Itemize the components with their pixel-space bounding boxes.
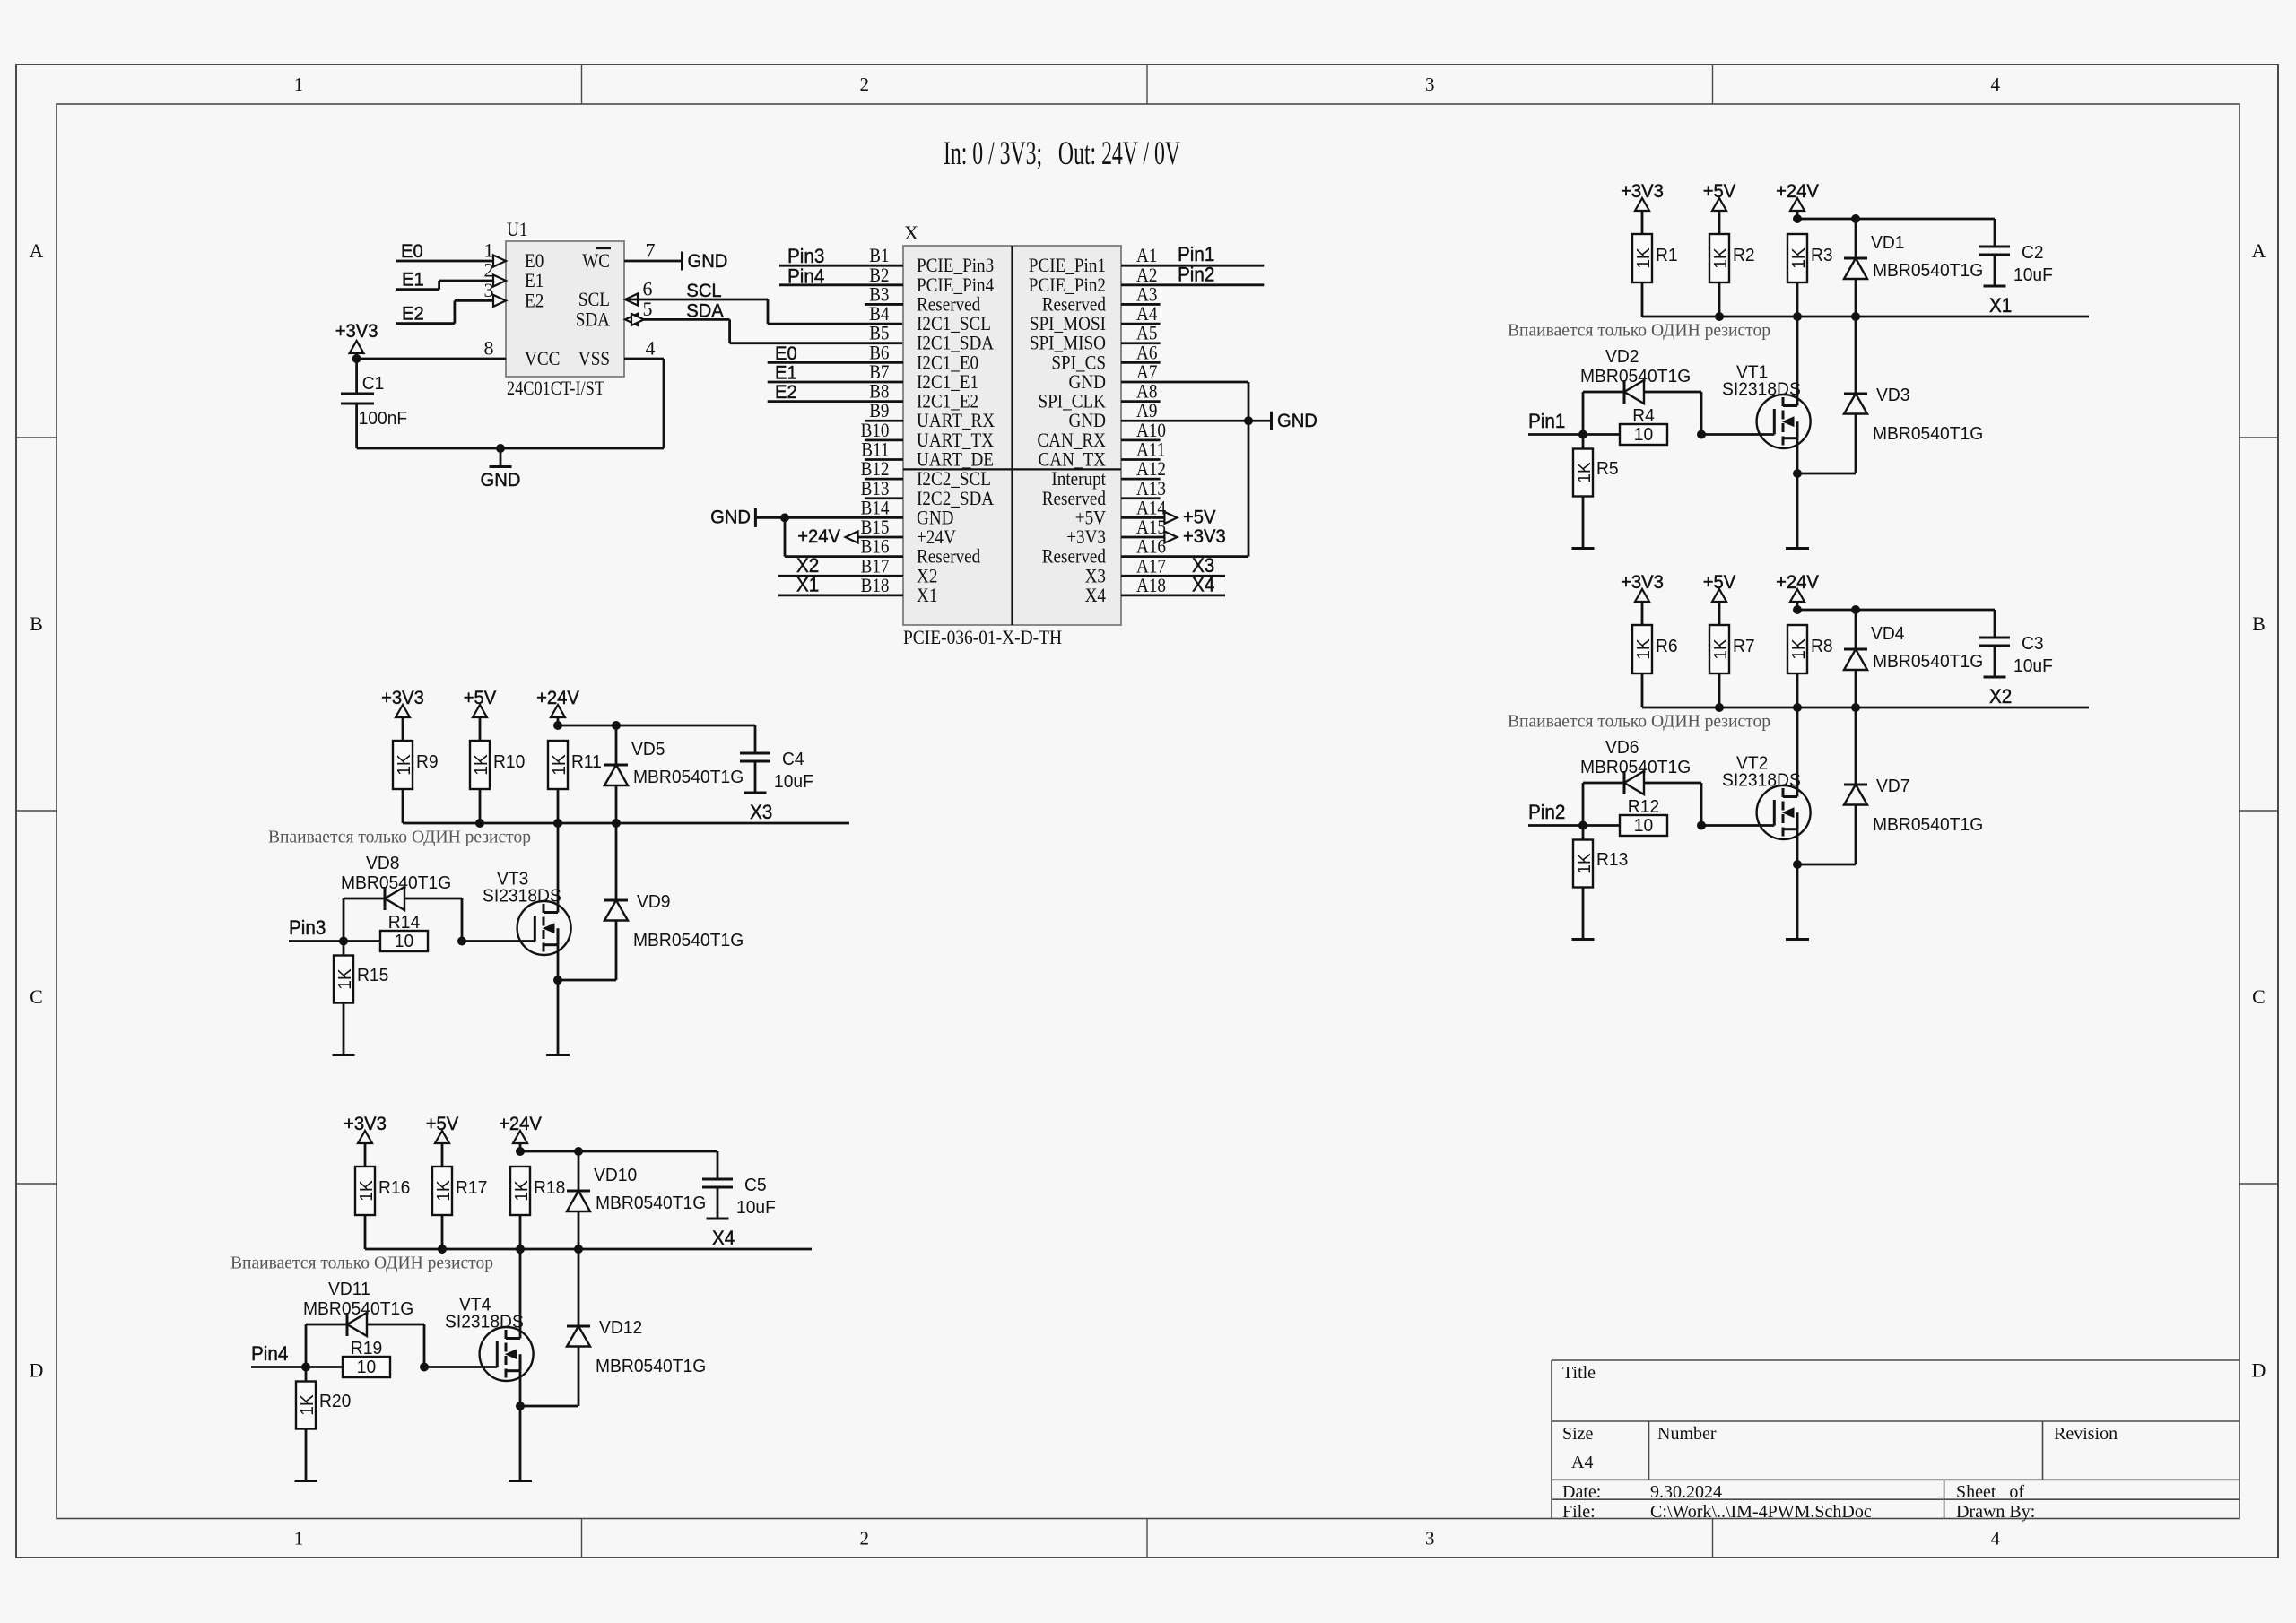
svg-text:Pin2: Pin2 [1528,801,1565,823]
resistor R14 10 [380,931,428,951]
svg-text:R4: R4 [1632,405,1655,426]
svg-text:Date:: Date: [1562,1482,1601,1502]
svg-text:VSS: VSS [578,347,610,369]
svg-text:1K: 1K [1710,247,1731,269]
svg-text:R11: R11 [571,751,602,772]
capacitor C4 10uF [754,725,757,753]
diode VD10 MBR0540T1G [578,1151,580,1191]
svg-text:In: 0 / 3V3; Out: 24V / 0V: In: 0 / 3V3; Out: 24V / 0V [944,135,1180,171]
svg-text:MBR0540T1G: MBR0540T1G [596,1193,706,1213]
wire drain (VT1) [1796,317,1799,406]
svg-text:SDA: SDA [686,299,724,321]
ground bar (R20) [295,1480,317,1482]
svg-text:2: 2 [860,74,870,95]
wire X2 to X.B17 [778,575,903,577]
capacitor C3 10uF [1994,610,1996,638]
transistor VT1 SI2318DS [1757,395,1811,448]
svg-text:E2: E2 [525,289,544,311]
diode VD8 MBR0540T1G [343,898,345,942]
wire GND to X.B14 [756,516,903,519]
resistor R12 10 [1620,815,1667,836]
svg-text:File:: File: [1562,1502,1596,1522]
svg-text:VD9: VD9 [637,891,671,912]
wire source (VT2) [1796,829,1799,940]
wire VSS down [624,358,664,360]
svg-text:7: 7 [646,239,656,262]
svg-text:10uF: 10uF [774,771,813,792]
svg-text:10: 10 [1634,815,1653,836]
wire +24V top rail (X1) [1797,218,1995,221]
ground bar (VT4 source) [509,1480,532,1482]
svg-text:X1: X1 [796,574,819,596]
svg-text:1K: 1K [1788,247,1809,269]
wire E2 to U1 pin3 [396,322,455,325]
svg-text:MBR0540T1G: MBR0540T1G [1873,260,1983,281]
junction gate node (VT2) [1697,821,1706,830]
svg-text:MBR0540T1G: MBR0540T1G [1580,757,1691,777]
capacitor C5 10uF [717,1151,719,1179]
svg-text:SI2318DS: SI2318DS [1722,770,1801,791]
wire gate (VT2) [1701,824,1774,827]
svg-text:Drawn By:: Drawn By: [1956,1502,2035,1522]
transistor VT3 SI2318DS [517,901,571,955]
resistor R3 1K [1787,234,1807,282]
svg-text:R2: R2 [1733,245,1755,265]
wire source (VT3) [557,945,560,1055]
junction source node (VT1) [1793,469,1802,478]
diode VD9 MBR0540T1G [558,979,616,982]
wire GND rail under U1 [357,447,664,450]
wire Pin3 input [289,940,380,942]
svg-text:PCIE-036-01-X-D-TH: PCIE-036-01-X-D-TH [903,626,1062,648]
diode VD5 MBR0540T1G [615,725,618,765]
diode VD1 MBR0540T1G [1855,219,1857,258]
svg-text:MBR0540T1G: MBR0540T1G [1873,651,1983,672]
svg-text:R19: R19 [351,1338,382,1358]
junction A9 GND [1244,416,1253,425]
wire drain (VT3) [557,823,560,913]
svg-text:VD2: VD2 [1605,346,1639,367]
svg-text:VD5: VD5 [631,739,665,759]
ground bar (C4) [744,792,767,794]
svg-text:10uF: 10uF [2013,265,2053,285]
ground bar (VT3 source) [546,1054,570,1056]
power port +5V (X.A14) [1121,516,1165,519]
svg-text:4: 4 [1991,74,2001,95]
svg-text:+3V3: +3V3 [1183,525,1226,547]
ground GND (U1 pin7) [624,260,681,263]
diode VD11 MBR0540T1G [305,1324,308,1367]
wire Pin4 to X.B2 [779,283,903,286]
wire Pin1 X.A1 [1121,265,1264,267]
svg-text:1K: 1K [1633,247,1654,269]
svg-text:2: 2 [860,1528,870,1549]
transistor VT4 SI2318DS [480,1327,534,1381]
wire gate (VT1) [1701,433,1774,436]
ground bar (R5) [1572,547,1595,550]
junction source node (VT2) [1793,860,1802,869]
resistor R17 1K [432,1167,452,1215]
svg-text:Впаивается только ОДИН резисто: Впаивается только ОДИН резистор [230,1254,493,1273]
svg-text:Впаивается только ОДИН резисто: Впаивается только ОДИН резистор [1508,321,1770,341]
resistor R1 1K [1632,234,1652,282]
junction gate node (VT4) [420,1363,429,1372]
svg-text:VD1: VD1 [1871,232,1905,253]
svg-text:C: C [2252,985,2266,1008]
svg-text:1K: 1K [433,1180,454,1202]
svg-text:MBR0540T1G: MBR0540T1G [1873,423,1983,444]
svg-text:VD11: VD11 [328,1279,370,1299]
transistor VT2 SI2318DS [1757,785,1811,839]
capacitor C2 10uF [1994,219,1996,247]
svg-text:MBR0540T1G: MBR0540T1G [633,767,744,787]
wire GND A9 [1121,420,1248,422]
svg-text:X2: X2 [1989,685,2012,707]
svg-text:VCC: VCC [525,347,560,369]
svg-text:Sheet of: Sheet of [1956,1482,2024,1502]
node VCC junction [352,354,361,363]
wire drain (VT2) [1796,707,1799,797]
svg-text:GND: GND [1277,410,1318,431]
svg-text:R12: R12 [1628,796,1659,817]
svg-text:MBR0540T1G: MBR0540T1G [341,872,451,893]
svg-text:Number: Number [1657,1424,1717,1444]
svg-text:C2: C2 [2022,242,2044,263]
junction gate node (VT3) [457,937,466,946]
svg-text:1: 1 [294,74,304,95]
svg-text:5: 5 [643,298,653,320]
svg-text:E2: E2 [402,303,424,325]
resistor R16 1K [355,1167,375,1215]
svg-text:3: 3 [1425,74,1435,95]
power port +3V3 (X.A15) [1121,536,1165,539]
svg-text:1: 1 [294,1528,304,1549]
svg-text:1K: 1K [335,968,355,990]
svg-text:R15: R15 [357,965,388,985]
svg-text:B: B [30,612,43,635]
svg-text:1K: 1K [1788,638,1809,660]
svg-text:D: D [2252,1359,2266,1382]
resistor R8 1K [1787,625,1807,673]
resistor R15 1K [343,942,345,956]
wire Pin4 input [251,1366,343,1368]
diode VD3 MBR0540T1G [1797,473,1856,475]
svg-text:R1: R1 [1656,245,1678,265]
svg-text:4: 4 [646,337,656,360]
svg-text:E1: E1 [525,269,544,291]
resistor R13 1K [1582,826,1585,840]
svg-text:GND: GND [688,250,728,272]
title block [1552,1359,2239,1361]
svg-text:X1: X1 [917,584,937,606]
wire Pin2 X.A2 [1121,283,1264,286]
wire X4 X.A18 [1121,595,1225,597]
svg-text:R17: R17 [456,1177,487,1198]
svg-text:A: A [2252,239,2266,262]
svg-text:+5V: +5V [1183,506,1216,527]
svg-text:R7: R7 [1733,636,1755,656]
svg-text:SI2318DS: SI2318DS [483,886,561,907]
svg-text:VD8: VD8 [366,853,400,873]
svg-text:R20: R20 [319,1391,351,1411]
wire gate (VT3) [462,940,535,942]
diode VD6 MBR0540T1G [1582,783,1585,826]
svg-text:10uF: 10uF [2013,655,2053,676]
svg-text:E1: E1 [402,269,424,291]
svg-text:MBR0540T1G: MBR0540T1G [596,1356,706,1376]
svg-text:VD6: VD6 [1605,737,1639,758]
svg-text:1K: 1K [471,754,491,776]
svg-text:Title: Title [1562,1363,1596,1383]
svg-text:1K: 1K [297,1394,317,1416]
svg-text:X4: X4 [1192,574,1214,596]
node +24V junction (X3) [553,721,562,730]
svg-text:4: 4 [1991,1528,2001,1549]
svg-text:SI2318DS: SI2318DS [1722,379,1801,400]
wire source (VT1) [1796,438,1799,549]
resistor R19 10 [343,1357,390,1377]
ground GND (under U1) [496,444,505,453]
resistor R5 1K [1582,435,1585,449]
capacitor C1 [355,359,358,394]
diode VD12 MBR0540T1G [520,1405,578,1408]
svg-text:SI2318DS: SI2318DS [445,1312,524,1332]
diode VD7 MBR0540T1G [1797,864,1856,866]
svg-text:Pin4: Pin4 [251,1342,288,1365]
junction Pin2 node [1578,821,1587,830]
wire Pin3 to X.B1 [779,265,903,267]
svg-text:SCL: SCL [686,280,721,301]
svg-text:Впаивается только ОДИН резисто: Впаивается только ОДИН резистор [268,828,531,847]
ground bar (R13) [1572,938,1595,941]
junction source node (VT4) [516,1402,525,1410]
svg-text:VD3: VD3 [1876,385,1910,405]
ground bar (C5) [707,1218,729,1220]
wire E1 to X.B7 [768,381,903,384]
resistor R7 1K [1709,625,1729,673]
node +24V junction (X4) [516,1147,525,1156]
svg-text:6: 6 [643,278,653,300]
ground GND (X.A9) [1248,420,1270,422]
wire E1 to U1 pin2 [396,288,439,291]
svg-text:MBR0540T1G: MBR0540T1G [303,1298,413,1319]
svg-text:X4: X4 [1085,584,1106,606]
svg-text:D: D [30,1359,44,1382]
svg-text:R6: R6 [1656,636,1678,656]
svg-text:E0: E0 [401,240,423,262]
svg-text:1K: 1K [394,754,414,776]
svg-text:8: 8 [484,337,494,360]
wire gate (VT4) [424,1366,497,1368]
svg-text:U1: U1 [507,218,527,240]
svg-text:1K: 1K [1574,462,1595,483]
svg-text:SDA: SDA [576,308,610,330]
wire GND loop A7-A16 [1121,381,1248,384]
junction Pin3 node [339,937,348,946]
junction Pin4 node [301,1363,310,1372]
wire SDA U1 to X.B5 [644,318,730,321]
svg-text:VD7: VD7 [1876,776,1910,796]
diode VD2 MBR0540T1G [1582,392,1585,435]
ground bar (C3) [1984,676,2006,679]
wire +24V top rail (X4) [520,1150,717,1153]
resistor R20 1K [305,1367,308,1382]
svg-text:1K: 1K [1710,638,1731,660]
node +24V junction (X2) [1793,605,1802,614]
resistor R10 1K [470,741,490,789]
svg-text:10: 10 [1634,424,1653,445]
svg-text:R10: R10 [493,751,525,772]
svg-text:WC: WC [582,249,610,272]
svg-text:9.30.2024: 9.30.2024 [1650,1482,1722,1502]
resistor R18 1K [510,1167,530,1215]
svg-text:+3V3: +3V3 [335,320,378,342]
svg-text:MBR0540T1G: MBR0540T1G [1873,814,1983,835]
svg-text:MBR0540T1G: MBR0540T1G [1580,366,1691,386]
svg-text:E1: E1 [775,361,797,383]
svg-text:B: B [2252,612,2266,635]
svg-text:GND: GND [481,469,521,490]
svg-text:1K: 1K [1574,853,1595,874]
svg-text:R9: R9 [416,751,439,772]
svg-text:1K: 1K [549,754,570,776]
junction source node (VT3) [553,976,562,985]
svg-text:X3: X3 [750,801,772,823]
wire source (VT4) [519,1371,522,1481]
junction Pin1 node [1578,430,1587,439]
svg-text:VD4: VD4 [1871,623,1905,644]
svg-text:X1: X1 [1989,294,2012,317]
wire GND to X.B16 [784,517,787,556]
IC U1 24C01CT-I/ST body [506,241,624,377]
svg-text:R3: R3 [1811,245,1833,265]
svg-text:10: 10 [395,931,413,951]
resistor R6 1K [1632,625,1652,673]
svg-text:3: 3 [1425,1528,1435,1549]
svg-text:VD10: VD10 [594,1165,637,1185]
svg-text:Впаивается только ОДИН резисто: Впаивается только ОДИН резистор [1508,712,1770,732]
ground bar (C2) [1984,285,2006,288]
svg-text:E0: E0 [775,343,797,364]
ground GND (X.B14) [754,508,757,527]
svg-text:R5: R5 [1596,458,1619,479]
svg-text:1K: 1K [511,1180,532,1202]
wire +24V top rail (X2) [1797,609,1995,612]
svg-text:C5: C5 [744,1175,767,1195]
connector X PCIE-036-01-X-D-TH body [903,246,1121,625]
svg-text:Pin2: Pin2 [1178,263,1214,285]
svg-text:R8: R8 [1811,636,1833,656]
wire drain (VT4) [519,1249,522,1339]
resistor R11 1K [548,741,568,789]
resistor R2 1K [1709,234,1729,282]
svg-text:C1: C1 [362,373,385,394]
svg-text:R18: R18 [534,1177,565,1198]
svg-text:A: A [30,239,44,262]
ground bar (VT2 source) [1786,938,1809,941]
svg-text:Pin3: Pin3 [289,916,326,939]
diode VD4 MBR0540T1G [1855,610,1857,649]
svg-text:GND: GND [710,507,751,528]
svg-text:1K: 1K [356,1180,377,1202]
resistor R9 1K [393,741,413,789]
svg-text:R13: R13 [1596,849,1628,870]
svg-text:3: 3 [484,279,494,301]
svg-text:10uF: 10uF [736,1197,776,1218]
svg-text:E2: E2 [775,381,797,403]
svg-text:Revision: Revision [2054,1424,2118,1444]
ground bar (VT1 source) [1786,547,1809,550]
junction gate node (VT1) [1697,430,1706,439]
svg-text:R16: R16 [378,1177,410,1198]
svg-text:X: X [904,221,918,244]
wire E0 to U1 pin1 [396,260,494,263]
junction B14 GND [780,513,789,522]
resistor R4 10 [1620,424,1667,445]
svg-text:+24V: +24V [797,525,840,547]
svg-text:A4: A4 [1571,1453,1593,1472]
svg-text:C3: C3 [2022,633,2044,654]
svg-text:C4: C4 [782,749,804,769]
wire X3 X.A17 [1121,575,1225,577]
svg-text:SCL: SCL [578,288,610,310]
svg-text:100nF: 100nF [359,408,408,429]
svg-text:Pin1: Pin1 [1528,410,1565,432]
node +24V junction (X1) [1793,214,1802,223]
svg-text:VD12: VD12 [599,1317,642,1338]
wire Pin1 input [1528,433,1620,436]
svg-text:X4: X4 [712,1227,735,1249]
svg-text:C: C [30,985,43,1008]
wire Pin2 input [1528,824,1620,827]
svg-text:10: 10 [357,1357,376,1377]
wire SCL U1 to X.B4 [625,299,768,301]
svg-text:C:\Work\..\IM-4PWM.SchDoc: C:\Work\..\IM-4PWM.SchDoc [1650,1502,1872,1522]
wire X1 to X.B18 [778,595,903,597]
ground bar (R15) [333,1054,355,1056]
svg-text:Size: Size [1562,1424,1594,1444]
wire +24V top rail (X3) [558,725,755,727]
svg-text:R14: R14 [388,912,420,933]
svg-text:1K: 1K [1633,638,1654,660]
wire E2 to X.B8 [768,400,903,403]
wire E0 to X.B6 [768,361,903,364]
svg-text:MBR0540T1G: MBR0540T1G [633,930,744,950]
svg-text:24C01CT-I/ST: 24C01CT-I/ST [507,377,604,399]
